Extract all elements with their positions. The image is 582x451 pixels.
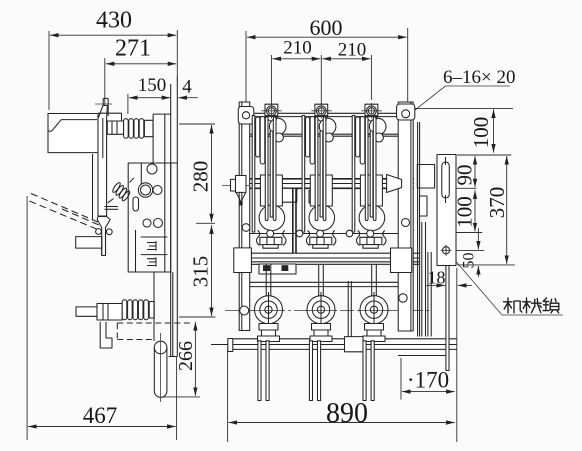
mechanical lock bolt bbox=[441, 245, 452, 256]
dimension 170 bbox=[401, 358, 455, 400]
dimension 210 right bbox=[322, 40, 371, 101]
bottom rail bbox=[211, 339, 457, 352]
svg-text:280: 280 bbox=[189, 161, 213, 193]
dashed operating handle bbox=[30, 194, 100, 230]
dimension 370 bbox=[457, 156, 515, 265]
hinge 2 bbox=[305, 265, 337, 342]
dimension 90 bbox=[453, 155, 512, 188]
shaft right cone bbox=[387, 165, 435, 193]
top rod bbox=[95, 98, 112, 116]
shaft left coupling bbox=[222, 176, 249, 206]
lower insulator bellows bbox=[122, 300, 154, 320]
dimension 467 bbox=[27, 196, 177, 440]
lock plate bbox=[437, 155, 456, 266]
vertical link bar A bbox=[293, 188, 296, 253]
bolt plate with dark bolts bbox=[259, 264, 296, 274]
upper insulator rod bbox=[107, 121, 123, 134]
bar B foot plate bbox=[345, 337, 365, 352]
dimension 4 bbox=[178, 77, 197, 98]
bottom pipe bbox=[154, 333, 167, 402]
mounting plate 4mm bbox=[169, 76, 178, 357]
bolt circles between poles bbox=[296, 230, 303, 237]
mid lower bar bbox=[234, 253, 420, 264]
svg-text:4: 4 bbox=[182, 77, 192, 98]
svg-text:210: 210 bbox=[338, 40, 367, 61]
svg-text:6–16× 20: 6–16× 20 bbox=[443, 67, 515, 88]
tie rod line bbox=[240, 233, 413, 235]
dimension 315 bbox=[179, 225, 215, 317]
dimension 280 bbox=[179, 124, 215, 223]
dimension 210 left bbox=[271, 38, 321, 105]
lock rod bbox=[446, 266, 449, 371]
dimension 100 mid right bbox=[453, 190, 483, 232]
svg-text:·170: ·170 bbox=[407, 368, 449, 393]
hinge 1 bbox=[253, 265, 285, 342]
lower terminal stud bbox=[76, 304, 122, 321]
right foot bracket bbox=[398, 349, 448, 355]
rod 1 bbox=[258, 341, 269, 401]
hub box pole2 bbox=[309, 191, 320, 204]
svg-text:100: 100 bbox=[469, 117, 493, 149]
left column bbox=[238, 102, 254, 331]
box interior circles bbox=[133, 163, 163, 228]
box interior latch plates bbox=[141, 237, 168, 267]
pole 2 bbox=[302, 103, 336, 248]
dimension 266 bbox=[161, 322, 200, 397]
hidden dashed lines lower bbox=[117, 323, 193, 340]
hub top line bbox=[98, 113, 122, 121]
center line through hinges bbox=[225, 310, 429, 312]
dimension 150 bbox=[128, 75, 170, 114]
dimension 100 top right bbox=[410, 108, 513, 152]
top rail bbox=[240, 113, 414, 136]
main vertical arm bbox=[93, 106, 108, 221]
pole 3 bbox=[352, 103, 386, 248]
pole 1 bbox=[252, 103, 286, 248]
dimension 271 bbox=[105, 36, 177, 106]
lower angle rail bbox=[239, 282, 412, 286]
small box under shaft bbox=[277, 188, 297, 202]
hinge 3 bbox=[358, 265, 390, 342]
label jixiesuo leader bbox=[447, 251, 564, 316]
main shaft bbox=[236, 179, 414, 189]
blade hub box bbox=[48, 114, 98, 153]
svg-text:266: 266 bbox=[175, 341, 197, 371]
svg-text:315: 315 bbox=[189, 256, 213, 288]
vertical link bar B bbox=[348, 281, 351, 337]
mechanism box bbox=[128, 163, 177, 272]
svg-text:50: 50 bbox=[461, 253, 478, 269]
mechanism housing upper column bbox=[153, 114, 171, 272]
dimension 600 bbox=[246, 15, 408, 110]
right side plates bbox=[418, 122, 432, 337]
svg-text:467: 467 bbox=[83, 403, 118, 428]
svg-text:271: 271 bbox=[115, 36, 151, 62]
dimension 50 bbox=[449, 228, 484, 277]
svg-text:370: 370 bbox=[485, 187, 509, 219]
dimension 18 bbox=[426, 256, 471, 442]
svg-text:210: 210 bbox=[283, 38, 312, 59]
lower shaft housing bbox=[154, 272, 173, 357]
rod 3 bbox=[363, 341, 374, 401]
svg-text:600: 600 bbox=[310, 15, 343, 40]
opening spring bbox=[105, 178, 134, 210]
handle socket bbox=[76, 237, 106, 256]
rod 2 bbox=[309, 341, 320, 401]
svg-text:890: 890 bbox=[326, 398, 368, 429]
callout 6-16x20 bbox=[409, 67, 515, 115]
dimension 890 bbox=[228, 350, 455, 442]
arm lower neck and pivot bbox=[96, 217, 113, 256]
svg-text:150: 150 bbox=[138, 75, 167, 96]
svg-text:18: 18 bbox=[428, 268, 446, 288]
mid bar end blocks bbox=[234, 248, 412, 273]
svg-text:430: 430 bbox=[96, 8, 132, 34]
lower bracket bbox=[100, 322, 112, 348]
label jixiesuo text bbox=[504, 298, 559, 313]
dimension 430 bbox=[49, 8, 177, 111]
right column bbox=[397, 102, 415, 331]
upper insulator bellows bbox=[124, 119, 153, 139]
